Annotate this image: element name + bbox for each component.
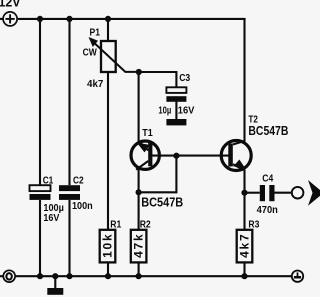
wire right vertical from rail to T2 collector [243,19,245,142]
0V terminal circle [3,270,15,282]
svg-text:BC547B: BC547B [248,124,288,138]
svg-text:47k: 47k [132,234,146,258]
wire wiper node to C3 horizontal [139,72,177,87]
svg-text:C2: C2 [73,175,84,187]
junction dot rail-bottom C1 [37,273,43,279]
svg-text:C3: C3 [179,72,190,84]
svg-text:4k7: 4k7 [87,78,104,90]
resistor R1 body [100,230,116,263]
wire C3 internal to bottom bar [175,101,177,119]
wire P1 top lead [107,19,109,41]
wire stub left of 0V terminal [0,275,3,277]
junction dot T1 collector node [136,189,142,195]
wire T1 bottom to R2 [138,169,140,230]
C3 ground end bar [166,119,186,125]
transistor T1 base bar [148,143,152,167]
transistor T1 emitter diagonal [139,141,149,150]
wire C1 branch bottom [39,200,41,276]
svg-text:C4: C4 [262,172,273,184]
transistor T2 base bar [228,144,233,167]
svg-text:16V: 16V [178,104,195,116]
capacitor C3 negative plate [166,96,186,102]
svg-text:R1: R1 [110,219,121,231]
svg-text:100n: 100n [72,200,93,212]
capacitor C3 positive plate [166,87,186,93]
wire C2 branch bottom [68,200,70,276]
output arrow [308,180,320,206]
ground output terminal circle [292,271,303,282]
capacitor C2 plate 2 [59,194,80,200]
wire C1 branch top [39,19,41,185]
capacitor C1 negative plate [30,194,51,200]
svg-text:10k: 10k [101,234,115,258]
svg-text:10µ: 10µ [158,104,171,116]
svg-text:P1: P1 [90,26,101,38]
wire bottom 0V rail [16,275,292,277]
transistor T2 emitter arrowhead [233,160,245,169]
output terminal circle [292,187,304,199]
potentiometer P1 wiper diagonal [94,43,139,72]
junction dot rail-bottom ground [52,273,58,279]
svg-text:R2: R2 [140,219,151,231]
junction dot base node [173,153,179,159]
transistor T1 collector diagonal [136,161,148,170]
svg-text:4k7: 4k7 [238,234,252,258]
junction dot wiper node [136,69,142,75]
wire R2 bottom lead [138,262,140,276]
svg-text:12V: 12V [0,0,21,9]
wire wiper node down to T1 emitter [138,72,140,142]
svg-text:C1: C1 [43,175,54,187]
capacitor C4 plate 2 [269,185,274,201]
wire stub left of supply terminal [0,18,3,20]
potentiometer P1 body [101,41,116,72]
capacitor C2 plate 1 [59,185,80,191]
transistor T2 collector diagonal [233,141,245,145]
transistor T1 emitter arrowhead [137,143,150,153]
wire T2 emitter down to R3 [243,170,245,230]
transistor T1 circle [131,141,159,169]
wire C4 to output terminal [275,192,292,194]
supply terminal + circle [3,12,17,26]
capacitor C4 plate 1 [260,185,265,201]
junction dot rail-bottom C2 [66,273,72,279]
wire top supply rail [18,18,246,20]
svg-text:16V: 16V [43,212,59,224]
junction dot T2 emitter output node [241,190,247,196]
svg-text:470n: 470n [257,204,278,216]
transistor T2 circle [221,141,251,171]
junction dot rail-bottom R1 [105,273,111,279]
resistor R2 body [131,230,147,263]
svg-text:T1: T1 [142,127,153,139]
junction dot rail-bottom R3 [241,273,247,279]
wire output node to C4 [245,192,260,194]
svg-text:CW: CW [83,46,97,58]
junction dot rail P1 [105,16,111,22]
wire R3 bottom lead [243,262,245,276]
capacitor C1 positive plate [30,185,51,191]
wire P1 bottom lead down to R1 [107,72,109,230]
svg-text:R3: R3 [248,219,259,231]
ground symbol bar [47,288,63,295]
junction dot rail C1 [37,16,43,22]
junction dot rail-bottom R2 [136,273,142,279]
svg-text:BC547B: BC547B [141,195,183,209]
wire ground stub [54,276,56,288]
wire R1 bottom lead [107,262,109,276]
potentiometer P1 wiper arrowhead [89,37,99,47]
wire C2 branch top [68,19,70,185]
junction dot rail C2 [66,16,72,22]
wire base node feedback corner [139,156,177,193]
transistor T2 emitter diagonal [233,164,245,170]
wire T1 base to T2 base [152,155,229,157]
resistor R3 body [237,230,253,263]
